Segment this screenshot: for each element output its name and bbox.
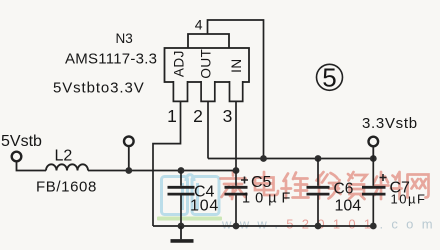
wire pin 2 OUT down	[207, 101, 209, 158]
junction pin4 wire / output rail	[260, 155, 267, 162]
capacitor C4	[168, 171, 195, 227]
svg-text:10µF: 10µF	[391, 192, 427, 207]
wire ground rail	[153, 225, 373, 227]
polarity plus C5	[241, 177, 248, 184]
regulator N3 AMS1117-3.3	[165, 34, 250, 101]
inductor L2	[46, 164, 88, 170]
svg-text:2: 2	[193, 106, 203, 126]
junction input rail / C5 / pin3	[233, 167, 240, 174]
junction C4 / ground rail	[178, 223, 185, 230]
polarity plus C7	[380, 174, 387, 181]
leg pin 1	[173, 81, 187, 101]
svg-text:1: 1	[167, 106, 177, 126]
capacitor C7	[362, 159, 386, 227]
svg-text:C6: C6	[334, 181, 354, 198]
wire pin 4 tab to output rail	[208, 20, 264, 159]
capacitor C5	[225, 171, 248, 227]
wire pin 1 ADJ to ground rail	[153, 101, 181, 226]
wire pin 3 IN down to input rail	[235, 101, 237, 170]
svg-text:4: 4	[195, 17, 203, 33]
ground	[171, 226, 194, 241]
svg-text:104: 104	[335, 198, 362, 215]
svg-text:N3: N3	[116, 31, 133, 46]
terminal 3.3Vstb	[369, 137, 379, 147]
svg-text:L2: L2	[55, 148, 73, 165]
svg-text:104: 104	[190, 198, 219, 215]
svg-text:5Vstb: 5Vstb	[1, 133, 42, 150]
junction C7 terminal / output rail	[370, 155, 377, 162]
pin 4 tab	[188, 34, 229, 48]
junction C6 / output rail	[315, 155, 322, 162]
svg-text:FB/1608: FB/1608	[36, 179, 97, 196]
svg-text:ADJ: ADJ	[172, 50, 187, 77]
junction C6 / ground rail	[315, 223, 322, 230]
wire test point lead	[128, 146, 130, 171]
section number 5	[317, 63, 343, 93]
svg-text:OUT: OUT	[199, 49, 214, 79]
svg-text:10µF: 10µF	[242, 191, 295, 207]
wire 3.3Vstb terminal lead	[372, 146, 374, 159]
watermark text 家电维修资料网	[221, 172, 429, 200]
capacitor C6	[307, 159, 330, 227]
wire 5Vstb terminal to inductor	[17, 161, 47, 171]
svg-text:5: 5	[322, 63, 336, 93]
junction input rail / test point	[125, 167, 132, 174]
watermark book logo	[157, 175, 222, 221]
leg pin 3	[230, 81, 243, 101]
junction input rail / C4	[178, 167, 185, 174]
svg-text:3: 3	[223, 106, 233, 126]
wire output rail	[208, 158, 373, 160]
svg-text:IN: IN	[229, 58, 244, 73]
terminal 5Vstb	[12, 152, 22, 162]
svg-text:5Vstbto3.3V: 5Vstbto3.3V	[53, 80, 145, 97]
terminal test point	[124, 137, 134, 147]
leg pin 2	[201, 81, 215, 101]
junction C5 / ground rail	[233, 223, 240, 230]
svg-text:3.3Vstb: 3.3Vstb	[362, 115, 418, 132]
svg-text:www.520101.com: www.520101.com	[221, 217, 440, 232]
junction C7 / ground rail	[370, 223, 377, 230]
wire input rail	[88, 170, 236, 172]
regulator body	[165, 48, 250, 82]
svg-text:AMS1117-3.3: AMS1117-3.3	[65, 51, 157, 68]
svg-text:C5: C5	[251, 174, 272, 191]
